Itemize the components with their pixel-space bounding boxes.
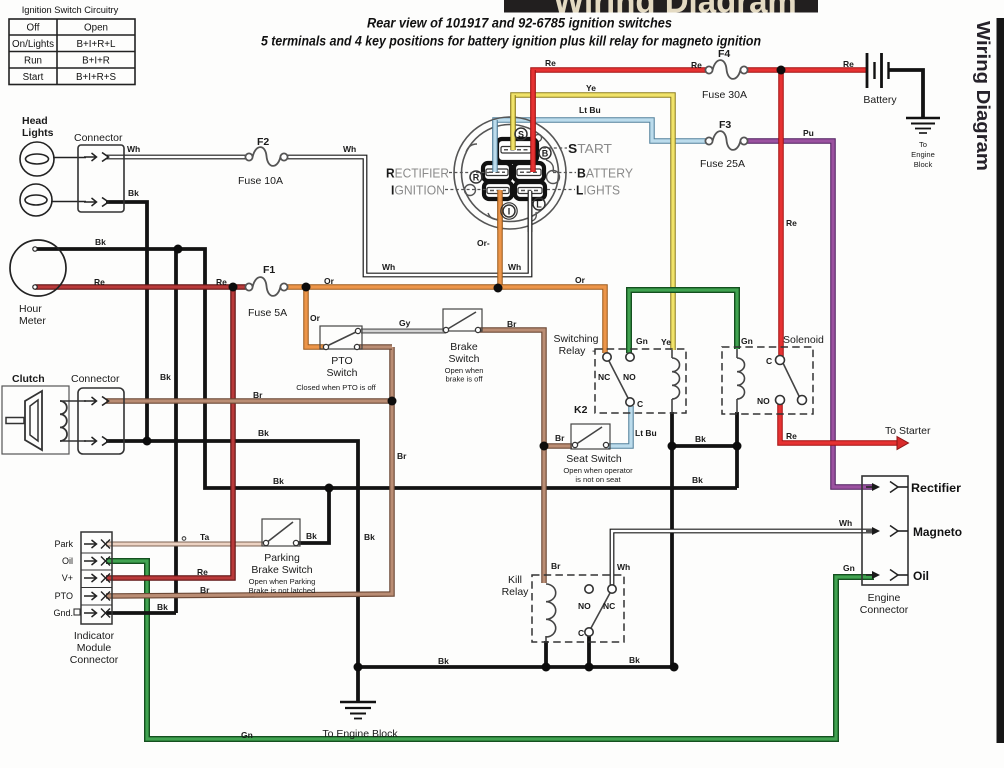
svg-text:On/Lights: On/Lights	[12, 39, 54, 50]
svg-text:brake is off: brake is off	[445, 375, 483, 384]
right edge bar	[997, 18, 1004, 743]
svg-text:Magneto: Magneto	[913, 525, 962, 539]
svg-text:-: -	[592, 345, 596, 357]
svg-text:Clutch: Clutch	[12, 373, 45, 385]
wire Bk indicator Gnd riser	[174, 249, 178, 613]
svg-text:Lt Bu: Lt Bu	[635, 428, 657, 438]
wire Or- ignition I terminal drop	[497, 190, 503, 288]
svg-text:Connector: Connector	[70, 654, 119, 666]
title banner	[504, 0, 818, 20]
wire Bk battery negative to engine block ground	[888, 70, 923, 118]
ignition switch circuitry table	[9, 19, 135, 85]
wire Bk headlight connector to ground net	[106, 202, 147, 441]
svg-text:Lt Bu: Lt Bu	[579, 105, 601, 115]
engine connector	[862, 476, 908, 585]
wire Bk between relay coil grounds	[672, 444, 737, 448]
svg-text:Parking: Parking	[264, 552, 300, 564]
svg-text:Re: Re	[786, 218, 797, 228]
svg-text:Wh: Wh	[127, 144, 140, 154]
clutch	[2, 386, 86, 454]
wire Or- from I slot (overlay)	[497, 190, 503, 230]
svg-text:NC: NC	[603, 601, 615, 611]
svg-text:To: To	[919, 140, 927, 149]
svg-text:Block: Block	[914, 160, 933, 169]
fuse F2	[245, 147, 287, 166]
wire Re hour meter to fuse F1	[35, 284, 249, 290]
svg-text:Open when Parking: Open when Parking	[249, 577, 316, 586]
wire Bk indicator Gnd stub	[106, 611, 176, 615]
wire Bk clutch connector to engine-block ground	[106, 441, 358, 702]
svg-text:Oil: Oil	[62, 556, 73, 566]
svg-text:Relay: Relay	[559, 345, 587, 357]
svg-text:R: R	[473, 173, 480, 183]
svg-text:Connector: Connector	[860, 604, 909, 616]
svg-text:Bk: Bk	[695, 434, 706, 444]
svg-text:Off: Off	[27, 23, 40, 34]
svg-text:Re: Re	[786, 431, 797, 441]
svg-text:Open: Open	[84, 23, 108, 34]
wire kill relay C contact to ground bus	[587, 636, 591, 667]
svg-text:B: B	[542, 149, 549, 159]
svg-text:Brake is not latched: Brake is not latched	[249, 586, 316, 595]
fuse F4	[705, 60, 747, 79]
svg-text:Gn: Gn	[241, 730, 253, 740]
wire Re ignition B terminal to fuse F4	[533, 70, 706, 172]
seat switch	[571, 424, 610, 449]
svg-text:Bk: Bk	[629, 655, 640, 665]
svg-text:F3: F3	[719, 119, 731, 131]
svg-text:I: I	[508, 207, 511, 217]
svg-text:LIGHTS: LIGHTS	[576, 183, 620, 198]
svg-text:PTO: PTO	[331, 355, 352, 367]
wire Re battery feed to solenoid C	[778, 70, 784, 356]
svg-text:NO: NO	[578, 601, 591, 611]
svg-text:Bk: Bk	[273, 476, 284, 486]
ignition terminal rings S B R L I	[470, 128, 551, 219]
fuse F3	[705, 131, 747, 150]
svg-text:Wh: Wh	[508, 262, 521, 272]
wire LtBu ignition R terminal to fuse F3	[495, 120, 706, 172]
wire Wh fuse F2 to ignition L terminal	[284, 157, 530, 275]
svg-text:Fuse 30A: Fuse 30A	[702, 89, 747, 101]
svg-text:Brake Switch: Brake Switch	[251, 564, 312, 576]
wire LtBu into R slot (overlay)	[492, 120, 498, 172]
svg-text:Re: Re	[545, 58, 556, 68]
wire Re solenoid NO to starter	[780, 404, 909, 450]
wire kill relay coil lead to ground bus	[544, 641, 548, 667]
svg-text:Gnd.: Gnd.	[53, 608, 73, 618]
battery ground to engine block	[906, 118, 940, 133]
fuse F1	[245, 277, 287, 296]
solenoid relay	[722, 347, 813, 414]
svg-text:Ignition Switch Circuitry: Ignition Switch Circuitry	[22, 5, 119, 15]
svg-text:Oil: Oil	[913, 569, 929, 583]
svg-text:Ye: Ye	[586, 83, 596, 93]
svg-text:NO: NO	[757, 396, 770, 406]
wire Gn indicator Oil to engine connector Oil (bottom run)	[106, 561, 874, 739]
svg-text:Relay: Relay	[502, 586, 530, 598]
wire color labels	[94, 58, 855, 740]
svg-text:S: S	[518, 130, 524, 140]
svg-text:To Engine Block: To Engine Block	[322, 728, 398, 740]
svg-text:Re: Re	[94, 277, 105, 287]
svg-text:Engine: Engine	[868, 592, 901, 604]
head lights lamps	[20, 142, 86, 216]
wire Wh headlight connector to fuse F2	[106, 155, 249, 160]
wire Gn switching relay NO and solenoid coil	[629, 290, 737, 353]
svg-text:Bk: Bk	[306, 531, 317, 541]
svg-text:Br: Br	[397, 451, 407, 461]
switching relay K2	[595, 349, 686, 413]
wire Re indicator V+ riser	[106, 287, 233, 578]
wire Bk parking brake switch to ground run	[298, 488, 329, 543]
svg-text:NC: NC	[598, 372, 610, 382]
battery	[867, 53, 889, 88]
svg-text:Wh: Wh	[382, 262, 395, 272]
clutch connector	[78, 388, 124, 454]
svg-text:Wiring Diagram: Wiring Diagram	[973, 21, 993, 171]
svg-text:Open when operator: Open when operator	[563, 466, 633, 475]
svg-text:Pu: Pu	[803, 128, 814, 138]
wire Br PTO switch to indicator PTO	[106, 347, 392, 596]
parking brake switch	[262, 519, 300, 546]
svg-text:Kill: Kill	[508, 574, 522, 586]
ignition switch body	[454, 117, 566, 229]
svg-text:F4: F4	[718, 48, 730, 60]
svg-text:Connector: Connector	[74, 132, 123, 144]
PTO switch	[320, 326, 362, 350]
svg-text:BATTERY: BATTERY	[577, 166, 633, 181]
wire Re into B slot (overlay)	[530, 70, 536, 172]
svg-text:Ta: Ta	[200, 532, 210, 542]
svg-text:Wh: Wh	[839, 518, 852, 528]
svg-text:Br: Br	[507, 319, 517, 329]
svg-text:Park: Park	[54, 539, 73, 549]
svg-text:Bk: Bk	[364, 532, 375, 542]
svg-text:Br: Br	[555, 433, 565, 443]
svg-text:Rectifier: Rectifier	[911, 481, 961, 495]
svg-text:Gn: Gn	[843, 563, 855, 573]
wire Br PTO switch output stub	[359, 344, 392, 350]
svg-text:Switch: Switch	[327, 367, 358, 379]
svg-text:To Starter: To Starter	[885, 425, 931, 437]
svg-text:Br: Br	[253, 390, 263, 400]
svg-text:Run: Run	[24, 56, 42, 67]
svg-text:Bk: Bk	[258, 428, 269, 438]
wire Br brake switch to kill relay coil	[480, 330, 544, 583]
wire Ye ignition S terminal to switching relay coil	[513, 95, 673, 350]
wire Ta indicator Park to parking brake switch	[106, 542, 265, 547]
svg-text:Switching: Switching	[554, 333, 599, 345]
svg-text:Switch: Switch	[449, 353, 480, 365]
svg-text:Br: Br	[200, 585, 210, 595]
svg-text:Re: Re	[216, 277, 227, 287]
svg-text:Gy: Gy	[399, 318, 411, 328]
svg-text:Indicator: Indicator	[74, 630, 115, 642]
wire LtBu switching relay C to seat switch	[608, 406, 631, 446]
svg-text:B+I+R: B+I+R	[82, 56, 110, 67]
ignition switch terminal plates	[483, 139, 545, 199]
kill relay coil thin lead	[545, 636, 547, 642]
svg-text:Bk: Bk	[157, 602, 168, 612]
wire Bk hour meter ground run	[35, 249, 737, 488]
svg-text:5 terminals and 4 key position: 5 terminals and 4 key positions for batt…	[261, 34, 761, 49]
wire solenoid coil lead to ground run	[735, 412, 739, 488]
svg-text:Or: Or	[310, 313, 321, 323]
wire Wh kill relay NC to engine connector Magneto	[612, 531, 874, 585]
svg-text:START: START	[568, 141, 612, 156]
wire Gy PTO switch to brake switch	[361, 329, 446, 334]
wire Br seat switch stub	[544, 443, 572, 449]
svg-text:is not on seat: is not on seat	[575, 475, 621, 484]
indicator module connector	[81, 532, 112, 624]
svg-text:Rear view of 101917 and 92-678: Rear view of 101917 and 92-6785 ignition…	[367, 16, 672, 31]
svg-text:Or-: Or-	[477, 238, 490, 248]
svg-text:RECTIFIER: RECTIFIER	[386, 166, 449, 181]
svg-text:Module: Module	[77, 642, 112, 654]
svg-text:Brake: Brake	[450, 341, 478, 353]
stray ring on tan wire	[182, 537, 186, 541]
svg-text:Bk: Bk	[692, 475, 703, 485]
svg-text:Engine: Engine	[911, 150, 935, 159]
wire Br clutch connector feed	[106, 398, 392, 404]
svg-text:Bk: Bk	[128, 188, 139, 198]
engine block ground (bottom)	[340, 702, 376, 719]
switching relay coil thin leads	[671, 349, 673, 413]
svg-text:Solenoid: Solenoid	[783, 334, 824, 346]
svg-text:F2: F2	[257, 136, 269, 148]
svg-text:Br: Br	[551, 561, 561, 571]
svg-text:Bk: Bk	[160, 372, 171, 382]
svg-text:Or: Or	[575, 275, 586, 285]
svg-text:Fuse 10A: Fuse 10A	[238, 175, 283, 187]
brake switch	[443, 309, 482, 333]
ignition terminal name labels	[386, 141, 633, 198]
svg-text:C: C	[578, 628, 584, 638]
wire junction dots	[143, 66, 786, 672]
svg-text:Gn: Gn	[741, 336, 753, 346]
svg-text:Fuse 5A: Fuse 5A	[248, 307, 287, 319]
svg-text:PTO: PTO	[55, 591, 73, 601]
wire Wh from L slot (overlay)	[528, 191, 533, 232]
wire switching relay coil lead to ground bus	[670, 412, 674, 667]
wire Ye into S slot (overlay)	[510, 95, 516, 150]
svg-text:Wh: Wh	[343, 144, 356, 154]
svg-text:Seat Switch: Seat Switch	[566, 453, 622, 465]
svg-text:Re: Re	[843, 59, 854, 69]
wire Or fuse F1 to switching relay NC	[287, 287, 605, 353]
kill relay	[532, 575, 624, 642]
svg-text:B+I+R+S: B+I+R+S	[76, 72, 116, 83]
svg-text:Gn: Gn	[636, 336, 648, 346]
wire Bk bottom ground bus	[358, 665, 674, 669]
svg-text:Battery: Battery	[863, 94, 897, 106]
hour meter	[10, 240, 66, 296]
svg-text:K2: K2	[574, 404, 588, 416]
svg-text:IGNITION: IGNITION	[391, 183, 445, 198]
svg-text:L: L	[536, 200, 542, 210]
wire Or branch to PTO switch	[306, 287, 326, 347]
svg-text:V+: V+	[62, 573, 73, 583]
svg-text:Lights: Lights	[22, 127, 54, 139]
svg-text:Re: Re	[197, 567, 208, 577]
svg-text:B+I+R+L: B+I+R+L	[77, 39, 116, 50]
solenoid coil thin leads	[736, 347, 738, 413]
svg-text:Head: Head	[22, 115, 48, 127]
svg-text:Bk: Bk	[438, 656, 449, 666]
svg-text:Fuse 25A: Fuse 25A	[700, 158, 745, 170]
svg-text:Re: Re	[691, 60, 702, 70]
svg-text:Bk: Bk	[95, 237, 106, 247]
svg-text:NO: NO	[623, 372, 636, 382]
svg-text:C: C	[637, 399, 643, 409]
svg-text:Hour: Hour	[19, 303, 42, 315]
wire Re fuse F4 to battery	[747, 67, 867, 73]
svg-text:Closed when PTO is off: Closed when PTO is off	[296, 383, 376, 392]
svg-text:Ye: Ye	[661, 337, 671, 347]
svg-text:Connector: Connector	[71, 373, 120, 385]
svg-text:Meter: Meter	[19, 315, 46, 327]
svg-text:C: C	[766, 356, 772, 366]
svg-text:Start: Start	[23, 72, 44, 83]
headlight connector	[78, 145, 124, 212]
svg-text:Wh: Wh	[617, 562, 630, 572]
svg-text:F1: F1	[263, 264, 275, 276]
wire Pu fuse F3 to engine connector Rectifier	[747, 141, 874, 487]
svg-text:Or: Or	[324, 276, 335, 286]
